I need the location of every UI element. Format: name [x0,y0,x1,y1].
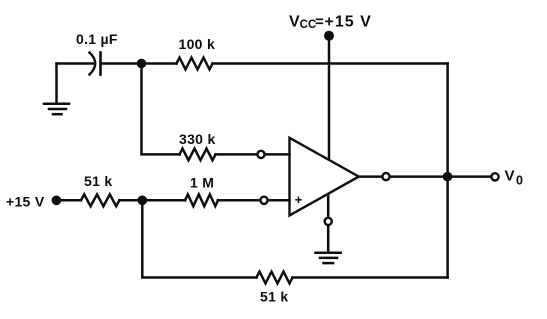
op-amp U1 triangle [290,138,359,216]
wire ground terminal to ground symbol [327,225,330,251]
node B junction dot [138,196,148,206]
ground (left) [44,104,69,114]
wire feedback resistor to right vertical [293,276,448,279]
svg-text:VCC=+15 V: VCC=+15 V [289,14,372,32]
wire node B down to feedback row [142,200,256,277]
wire capacitor to node A [102,62,142,65]
svg-text:V0: V0 [505,168,524,188]
wire op-amp output to output terminal [359,175,382,178]
ground (op-amp) [316,253,341,263]
resistor R 100 k [177,58,213,70]
wire 330k to inverting input terminal [216,153,257,156]
inverting input terminal circle [257,151,264,158]
resistor R 330 k [180,149,216,161]
wire 51k to node B [119,199,142,202]
svg-text:330 k: 330 k [179,131,216,147]
wire resistor 100k to top-right corner [213,62,448,65]
output terminal circle [382,173,389,180]
svg-text:100 k: 100 k [179,36,216,52]
svg-text:+15 V: +15 V [6,194,45,210]
wire right vertical feedback down to output node [446,64,449,177]
svg-text:1 M: 1 M [190,175,214,191]
wire +15V to resistor 51k [56,199,81,202]
op-amp plus sign [296,197,301,202]
svg-text:51 k: 51 k [84,173,112,189]
wire top-left horizontal to capacitor [57,62,95,65]
wire 1M to non-inverting terminal [218,199,260,202]
wire op-amp V- pin to ground terminal [327,195,330,218]
wire terminal to op-amp non-inverting input [268,199,290,202]
VCC terminal dot [324,31,334,41]
wire node C to VO terminal [448,175,492,178]
wire node B to resistor 1M [142,199,185,202]
node C junction dot [443,172,453,182]
capacitor C 0.1 µF [90,53,101,75]
svg-text:51 k: 51 k [260,289,288,305]
resistor R 51 k (input) [81,194,119,206]
resistor R 51 k (feedback) [257,272,293,284]
node A junction dot [137,59,147,69]
wire node A to resistor 100k [142,62,177,65]
wire output terminal to node C [390,175,448,178]
VO terminal circle [491,173,498,180]
wire right vertical feedback up to node C [446,177,449,278]
wire node A down to 330k row [142,64,180,155]
wire left vertical to ground [55,64,58,103]
resistor R 1 M [185,194,218,206]
wire terminal to op-amp inverting input [265,153,290,156]
wire VCC down to op-amp V+ pin [328,38,331,159]
+15 V terminal dot [52,196,62,206]
svg-text:0.1 µF: 0.1 µF [76,31,118,47]
non-inverting input terminal circle [260,197,267,204]
op-amp ground terminal circle [325,218,332,225]
